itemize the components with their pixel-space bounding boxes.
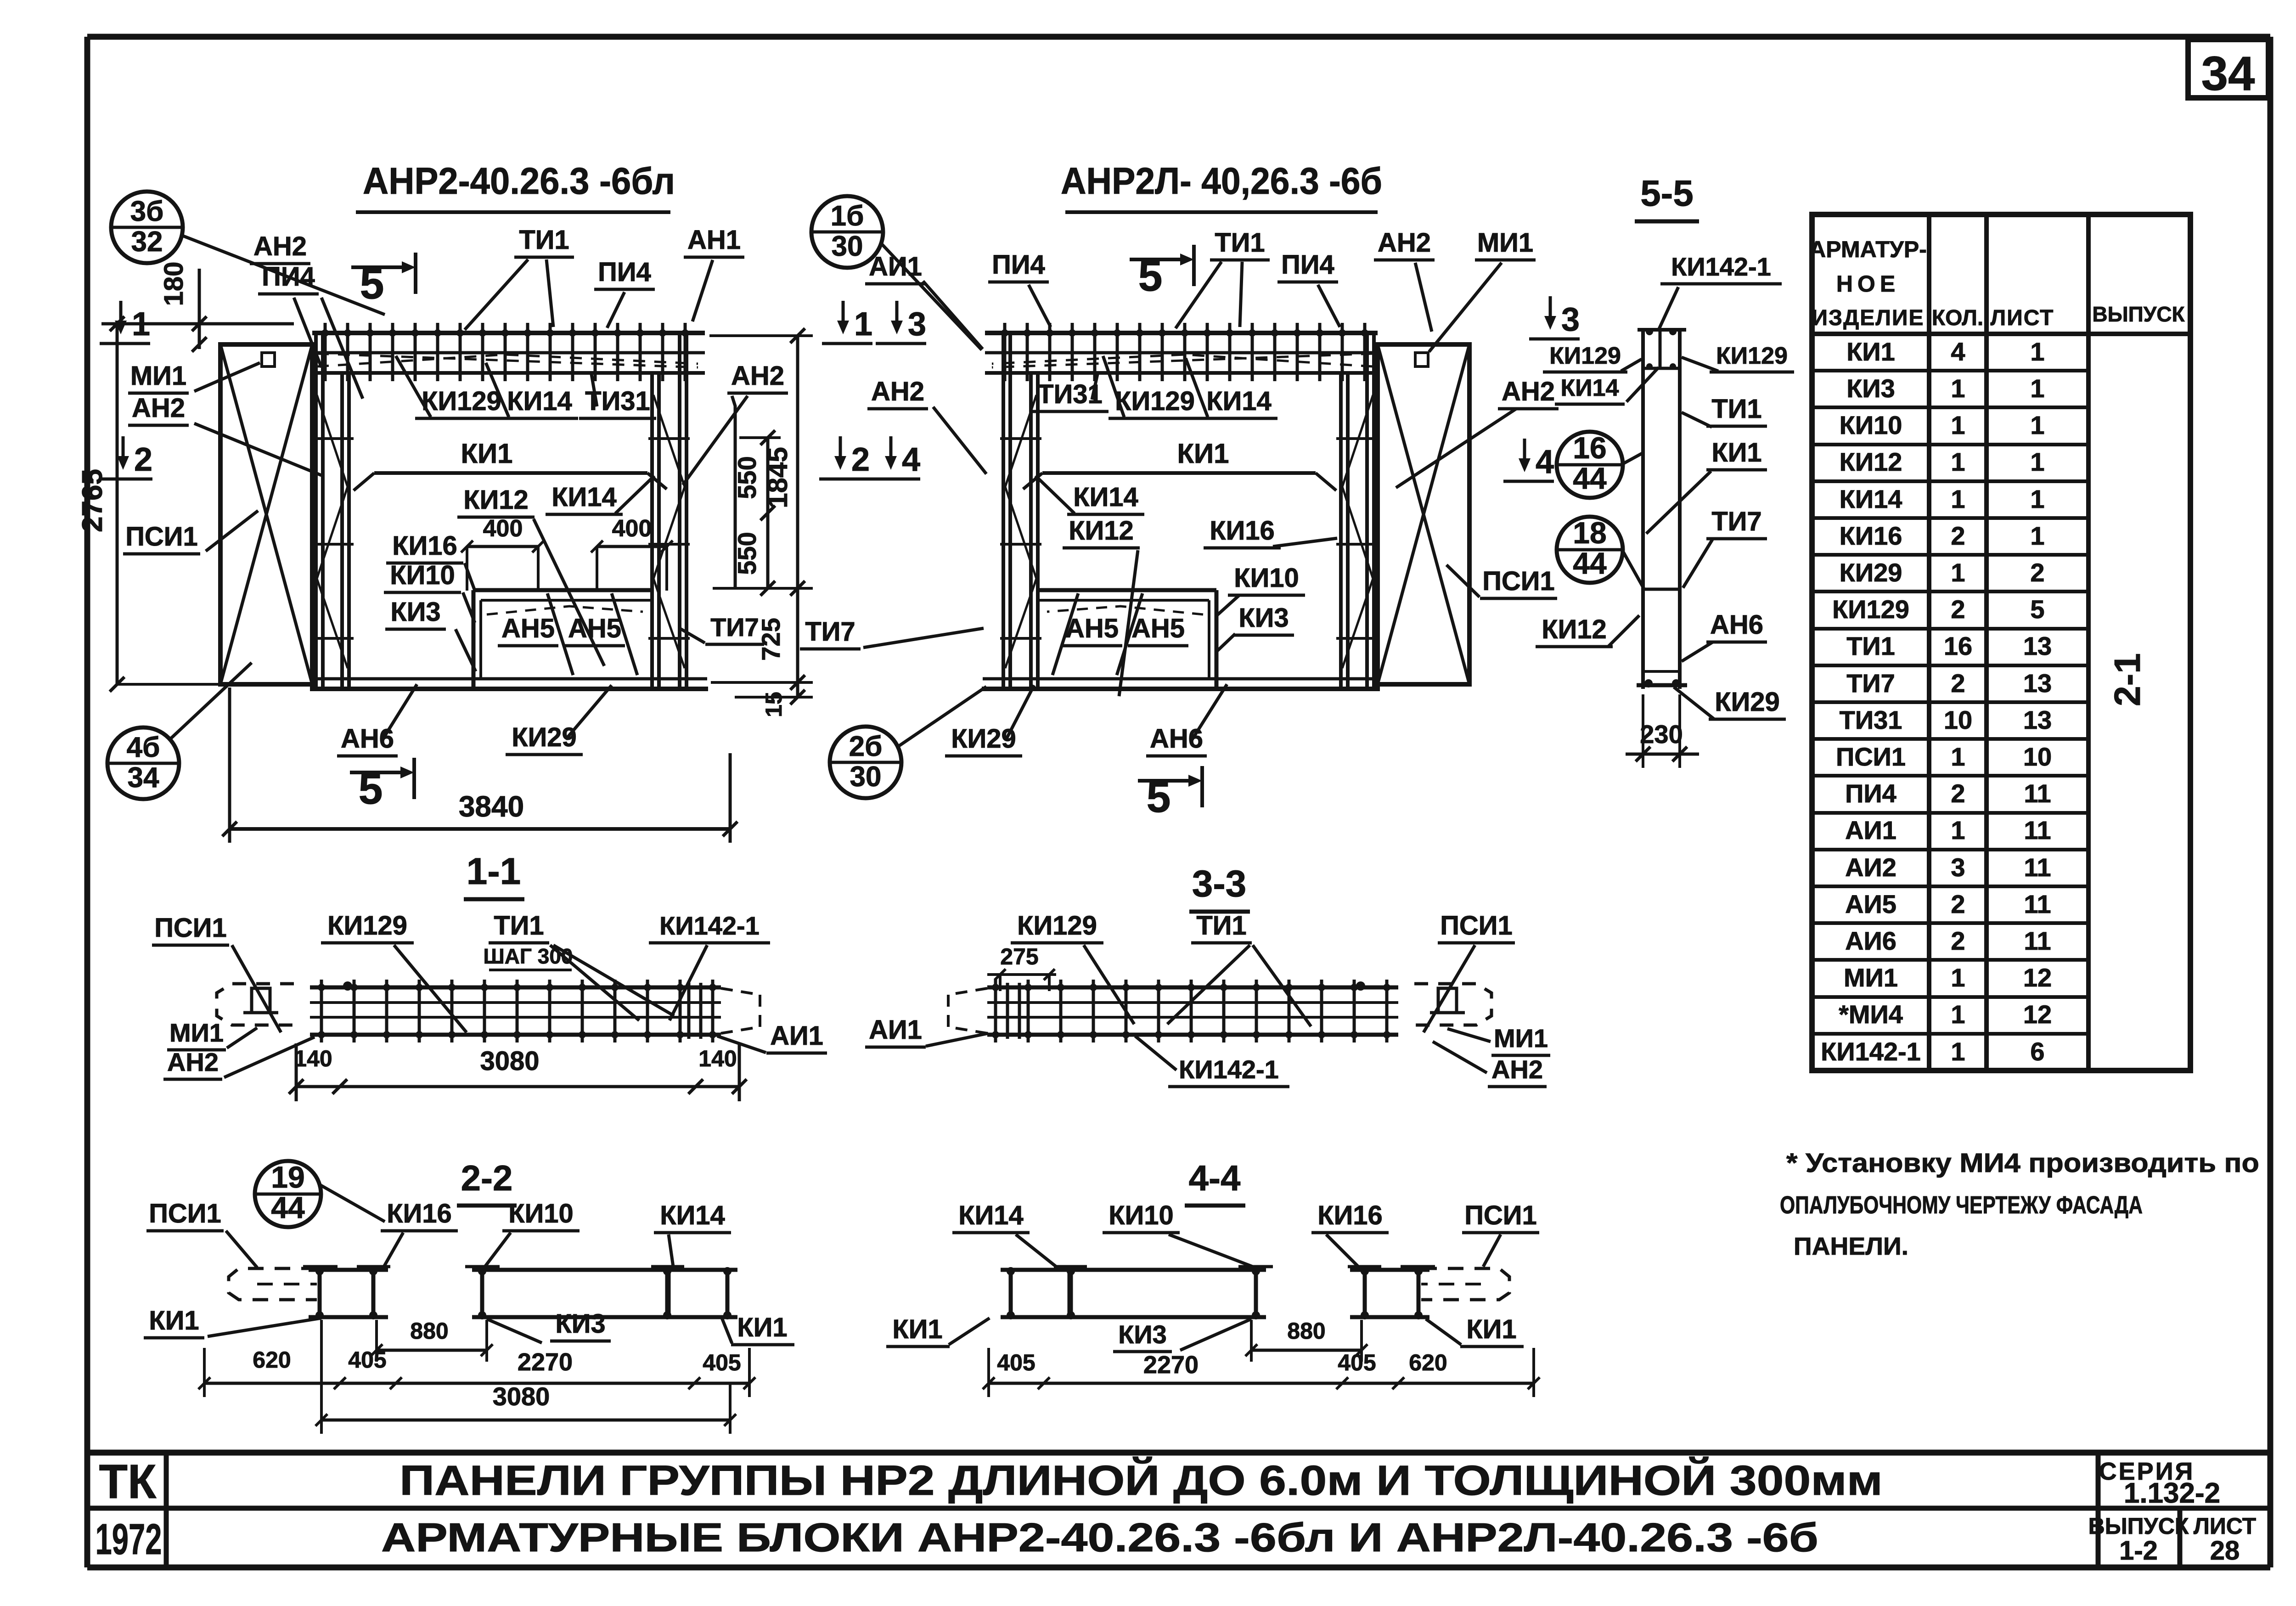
svg-text:180: 180 [159,262,189,306]
svg-text:КИ14: КИ14 [958,1200,1024,1230]
svg-text:725: 725 [756,618,785,660]
svg-text:КИ129: КИ129 [1832,595,1909,624]
svg-text:6: 6 [2030,1037,2044,1066]
svg-text:1: 1 [1951,374,1965,403]
svg-text:КИ3: КИ3 [390,597,440,627]
svg-text:2: 2 [1951,926,1965,955]
svg-text:230: 230 [1640,720,1683,749]
svg-text:4: 4 [1951,337,1965,366]
svg-text:2-2: 2-2 [461,1158,513,1198]
svg-text:400: 400 [612,515,652,542]
svg-text:1-2: 1-2 [2119,1536,2158,1566]
svg-text:550: 550 [732,532,761,575]
svg-text:2: 2 [1951,890,1965,919]
svg-text:ЛИСТ: ЛИСТ [2194,1513,2256,1539]
svg-text:1: 1 [1951,447,1965,476]
svg-text:10: 10 [1944,705,1972,734]
svg-text:МИ1: МИ1 [1844,963,1898,992]
svg-text:34: 34 [128,762,159,794]
svg-text:2б: 2б [849,731,883,762]
svg-text:1: 1 [2030,337,2044,366]
svg-text:405: 405 [997,1350,1035,1375]
svg-text:1: 1 [1951,1037,1965,1066]
svg-text:АН2: АН2 [1378,228,1431,258]
svg-text:4-4: 4-4 [1189,1158,1241,1198]
svg-text:ПСИ1: ПСИ1 [149,1199,221,1228]
svg-text:МИ1: МИ1 [1477,228,1533,258]
svg-text:АНР2-40.26.3 -6бл: АНР2-40.26.3 -6бл [363,160,675,202]
svg-text:АИ1: АИ1 [770,1021,823,1051]
svg-text:* Установку МИ4 производить: * Установку МИ4 производить по [1786,1148,2259,1178]
svg-text:4: 4 [902,441,920,478]
svg-text:ПСИ1: ПСИ1 [1440,911,1513,941]
svg-text:АН2: АН2 [731,361,784,391]
svg-text:КИ29: КИ29 [1840,558,1902,587]
svg-text:2: 2 [1951,521,1965,550]
svg-text:ПИ4: ПИ4 [1281,250,1334,280]
svg-text:АН6: АН6 [1150,724,1203,754]
svg-text:КИ10: КИ10 [1109,1200,1174,1230]
svg-text:ЛИСТ: ЛИСТ [1991,306,2054,330]
svg-text:ТИ7: ТИ7 [710,613,759,642]
svg-text:АН6: АН6 [341,724,394,754]
svg-text:1845: 1845 [762,447,793,508]
svg-text:МИ1: МИ1 [1494,1024,1548,1053]
svg-text:620: 620 [253,1347,291,1373]
svg-text:12: 12 [2023,963,2052,992]
svg-text:5-5: 5-5 [1640,173,1694,214]
svg-text:2: 2 [1951,669,1965,698]
svg-text:КИ10: КИ10 [1840,411,1902,440]
svg-text:5: 5 [1138,252,1163,300]
svg-text:44: 44 [1573,461,1607,495]
svg-text:ОПАЛУБОЧНОМУ ЧЕРТЕЖУ ФАСАДА: ОПАЛУБОЧНОМУ ЧЕРТЕЖУ ФАСАДА [1780,1191,2143,1219]
svg-text:ПСИ1: ПСИ1 [1482,566,1555,596]
svg-text:КИ12: КИ12 [1840,447,1902,476]
svg-text:1: 1 [2030,374,2044,403]
svg-text:КИ16: КИ16 [1210,516,1275,546]
svg-text:1: 1 [1951,963,1965,992]
svg-text:1: 1 [2030,485,2044,513]
svg-text:2: 2 [2030,558,2044,587]
svg-text:АН2: АН2 [1491,1055,1543,1084]
svg-text:1: 1 [1951,1000,1965,1029]
svg-text:КИ14: КИ14 [1561,375,1619,401]
svg-text:КИ142-1: КИ142-1 [1671,252,1771,281]
svg-text:11: 11 [2024,853,2051,882]
svg-text:КИ16: КИ16 [387,1199,452,1228]
svg-text:ТИ7: ТИ7 [1711,507,1761,536]
svg-text:КИ14: КИ14 [1206,386,1272,416]
svg-text:1: 1 [1951,485,1965,513]
svg-text:КИ1: КИ1 [1466,1314,1516,1344]
svg-text:АН1: АН1 [687,225,741,255]
svg-text:КИ1: КИ1 [892,1314,942,1344]
svg-text:2: 2 [851,441,870,478]
svg-text:44: 44 [271,1190,305,1224]
svg-text:620: 620 [1409,1350,1447,1375]
svg-text:13: 13 [2023,631,2052,660]
svg-text:2270: 2270 [1143,1351,1199,1379]
svg-text:4б: 4б [127,732,160,763]
svg-text:1: 1 [1951,558,1965,587]
svg-text:1: 1 [2030,521,2044,550]
svg-text:КИ14: КИ14 [551,482,617,512]
svg-text:АИ2: АИ2 [1845,853,1896,882]
svg-text:5: 5 [1147,773,1171,822]
svg-text:АН5: АН5 [1131,614,1185,643]
svg-text:ВЫПУСК: ВЫПУСК [2088,1513,2189,1539]
svg-text:АН2: АН2 [1502,377,1555,406]
svg-text:ПСИ1: ПСИ1 [154,913,227,943]
svg-text:18: 18 [1573,516,1606,550]
svg-text:ПИ4: ПИ4 [992,250,1045,280]
svg-text:13: 13 [2023,669,2052,698]
svg-text:ТИ1: ТИ1 [1215,228,1265,258]
svg-text:НОЕ: НОЕ [1836,271,1900,297]
svg-text:ТИ1: ТИ1 [1711,394,1761,424]
svg-text:1: 1 [2030,447,2044,476]
svg-text:АН2: АН2 [167,1048,219,1076]
svg-text:ПИ4: ПИ4 [598,257,651,287]
svg-text:1б: 1б [831,200,864,232]
svg-text:3б: 3б [130,196,164,227]
svg-text:ПИ4: ПИ4 [262,262,315,292]
svg-text:30: 30 [850,761,882,793]
svg-text:ПИ4: ПИ4 [1845,779,1896,808]
svg-text:405: 405 [348,1347,386,1373]
svg-text:1: 1 [2030,411,2044,440]
svg-text:1.132-2: 1.132-2 [2124,1477,2220,1509]
svg-text:КИ129: КИ129 [422,386,501,416]
svg-text:КИ1: КИ1 [1711,438,1761,468]
svg-text:1: 1 [1951,816,1965,845]
svg-text:АН5: АН5 [568,614,621,643]
svg-text:АИ1: АИ1 [869,1015,922,1045]
svg-text:АН6: АН6 [1710,610,1763,640]
svg-text:АИ6: АИ6 [1845,926,1896,955]
svg-text:КИ29: КИ29 [1715,687,1780,717]
svg-text:КИ1: КИ1 [461,438,512,469]
svg-text:44: 44 [1573,546,1607,580]
svg-text:ПСИ1: ПСИ1 [125,522,198,552]
svg-text:МИ1: МИ1 [169,1018,224,1047]
svg-text:2: 2 [134,441,152,478]
svg-text:1: 1 [132,306,150,343]
svg-text:2: 2 [1951,779,1965,808]
svg-text:АН2: АН2 [132,393,185,423]
svg-text:АИ1: АИ1 [1845,816,1896,845]
svg-text:3: 3 [1561,301,1580,338]
svg-text:16: 16 [1944,631,1972,660]
svg-text:КИ3: КИ3 [1846,374,1895,403]
svg-text:АН2: АН2 [253,231,307,261]
svg-text:КИ10: КИ10 [1234,563,1299,593]
svg-text:3-3: 3-3 [1192,863,1247,905]
svg-text:275: 275 [1000,944,1038,969]
svg-text:1-1: 1-1 [467,851,521,892]
svg-text:КИ142-1: КИ142-1 [1821,1037,1921,1066]
svg-text:11: 11 [2024,816,2051,845]
svg-text:АИ5: АИ5 [1845,890,1896,919]
svg-text:КИ129: КИ129 [327,911,407,941]
svg-text:КИ3: КИ3 [555,1309,605,1339]
svg-text:405: 405 [1338,1350,1376,1375]
svg-text:*МИ4: *МИ4 [1839,1000,1903,1029]
svg-text:1: 1 [1951,742,1965,771]
svg-text:АИ1: АИ1 [869,252,922,282]
svg-text:32: 32 [131,226,163,258]
svg-text:2270: 2270 [518,1348,573,1376]
svg-text:КИ16: КИ16 [1317,1200,1383,1230]
svg-text:19: 19 [271,1160,304,1194]
svg-text:2: 2 [1951,595,1965,624]
svg-text:400: 400 [483,515,523,542]
svg-text:ИЗДЕЛИЕ: ИЗДЕЛИЕ [1812,306,1925,330]
svg-text:ПАНЕЛИ.: ПАНЕЛИ. [1794,1233,1908,1260]
svg-text:550: 550 [732,456,761,499]
svg-text:КИ14: КИ14 [1840,485,1902,513]
svg-text:ПАНЕЛИ ГРУППЫ НР2 ДЛИНОЙ Д: ПАНЕЛИ ГРУППЫ НР2 ДЛИНОЙ ДО 6.0м И ТОЛЩИ… [400,1456,1883,1504]
svg-text:КИ3: КИ3 [1118,1320,1167,1349]
svg-text:1: 1 [1951,411,1965,440]
svg-text:КИ12: КИ12 [463,485,529,515]
svg-text:ТИ7: ТИ7 [1846,669,1895,698]
svg-text:880: 880 [410,1318,448,1344]
svg-text:30: 30 [832,231,863,262]
svg-text:МИ1: МИ1 [130,361,186,391]
svg-text:ТИ1: ТИ1 [519,225,569,255]
svg-text:АНР2Л- 40,26.3 -6б: АНР2Л- 40,26.3 -6б [1061,160,1382,202]
svg-text:КИ1: КИ1 [1177,438,1229,469]
svg-text:5: 5 [359,765,383,813]
svg-text:КИ12: КИ12 [1069,516,1134,546]
svg-text:КОЛ.: КОЛ. [1932,306,1983,330]
svg-text:5: 5 [2030,595,2044,624]
svg-text:КИ14: КИ14 [660,1200,725,1230]
svg-text:АН5: АН5 [1065,614,1119,643]
svg-text:16: 16 [1573,431,1606,465]
svg-text:КИ1: КИ1 [1846,337,1895,366]
svg-text:1: 1 [854,306,872,343]
svg-text:КИ16: КИ16 [392,531,457,561]
svg-text:3: 3 [908,306,926,343]
svg-text:5: 5 [360,259,384,308]
svg-text:КИ142-1: КИ142-1 [1179,1055,1279,1084]
svg-text:10: 10 [2023,742,2052,771]
svg-text:КИ16: КИ16 [1840,521,1902,550]
svg-text:КИ10: КИ10 [508,1199,574,1228]
svg-text:КИ14: КИ14 [1073,482,1138,512]
svg-text:13: 13 [2023,705,2052,734]
svg-text:КИ1: КИ1 [149,1306,199,1336]
svg-text:34: 34 [2201,47,2255,101]
svg-text:4: 4 [1536,444,1554,480]
svg-text:11: 11 [2024,779,2051,808]
svg-text:ТИ1: ТИ1 [1846,631,1895,660]
svg-text:КИ129: КИ129 [1115,386,1195,416]
svg-text:КИ12: КИ12 [1542,614,1607,644]
svg-text:ПСИ1: ПСИ1 [1836,742,1906,771]
svg-text:3840: 3840 [459,790,524,823]
svg-text:ТИ1: ТИ1 [1196,911,1246,941]
svg-text:405: 405 [703,1350,741,1375]
svg-text:ТИ31: ТИ31 [1840,705,1902,734]
svg-text:АРМАТУР-: АРМАТУР- [1809,237,1927,262]
svg-text:КИ3: КИ3 [1238,603,1289,633]
svg-text:12: 12 [2023,1000,2052,1029]
svg-text:ПСИ1: ПСИ1 [1464,1200,1537,1230]
svg-text:11: 11 [2024,926,2051,955]
svg-text:АН5: АН5 [501,614,555,643]
svg-text:ТК: ТК [99,1455,157,1509]
svg-text:КИ14: КИ14 [507,386,572,416]
svg-text:11: 11 [2024,890,2051,919]
svg-text:КИ142-1: КИ142-1 [659,911,760,940]
svg-text:КИ1: КИ1 [737,1313,787,1342]
svg-text:28: 28 [2210,1536,2240,1566]
svg-text:140: 140 [698,1046,737,1071]
svg-text:2-1: 2-1 [2107,653,2148,706]
svg-text:880: 880 [1287,1318,1325,1344]
svg-text:1972: 1972 [96,1515,162,1564]
svg-text:15: 15 [761,692,787,717]
svg-text:КИ129: КИ129 [1017,911,1097,941]
svg-text:АРМАТУРНЫЕ БЛОКИ АНР2-40.26.: АРМАТУРНЫЕ БЛОКИ АНР2-40.26.3 -6бл И АНР… [381,1515,1818,1560]
svg-text:ТИ1: ТИ1 [494,911,544,941]
svg-text:КИ10: КИ10 [390,560,455,590]
svg-text:КИ129: КИ129 [1716,343,1788,369]
svg-text:ТИ7: ТИ7 [805,617,855,647]
svg-text:АН2: АН2 [871,377,924,406]
svg-text:3080: 3080 [480,1046,539,1076]
svg-text:3: 3 [1951,853,1965,882]
svg-text:КИ129: КИ129 [1549,343,1621,369]
svg-text:3080: 3080 [493,1382,550,1411]
svg-text:ВЫПУСК: ВЫПУСК [2092,302,2185,326]
svg-text:140: 140 [294,1046,332,1071]
